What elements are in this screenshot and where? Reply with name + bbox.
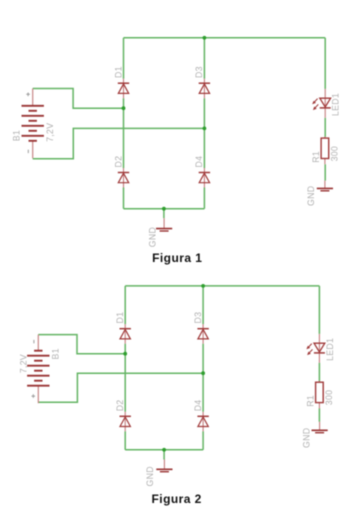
battery B1 fig2 [27,335,49,404]
wire D4 bottom fig1 [203,188,205,209]
svg-text:300: 300 [330,146,340,161]
junction mid-right fig2 [201,371,205,375]
ground bottom fig2 [156,460,172,472]
svg-text:GND: GND [148,227,158,247]
wire battery plus fig2 [38,373,203,402]
wire D4 top fig1 [203,128,205,168]
wire bottom net fig1 [124,208,205,210]
wire LED-R1 fig1 [324,118,326,137]
svg-text:R1: R1 [311,151,321,163]
wire GND stub fig1 [163,209,165,219]
wire D4 bottom fig2 [202,431,204,450]
resistor R1 [321,137,329,165]
minus terminal mark [27,150,29,153]
svg-text:B1: B1 [50,348,60,359]
svg-text:300: 300 [324,390,334,405]
LED LED1 [312,89,331,118]
svg-text:D4: D4 [193,400,203,412]
wire battery plus fig1 [33,89,124,109]
wire R1-GND fig1 [324,164,326,180]
ground right fig1 [317,181,333,191]
svg-text:D1: D1 [115,312,125,324]
wire D1-D2 fig2 [124,344,126,412]
diode D3 [199,79,210,99]
diode D4 [199,168,210,188]
wire top net fig1 [124,37,326,39]
plus terminal mark fig2 [32,394,36,398]
wire battery minus fig1 [33,128,205,158]
wire top net fig2 [125,285,319,287]
svg-text:D3: D3 [194,66,204,78]
svg-text:Figura 1: Figura 1 [152,251,202,265]
diode D4 [197,412,208,432]
diode D2 [120,412,131,432]
junction mid-right fig1 [203,126,207,130]
svg-text:7,2V: 7,2V [45,123,55,142]
wire D1 top fig1 [123,38,125,79]
resistor R1 fig2 [316,381,324,409]
plus terminal mark [26,93,30,97]
diode D1 [118,79,129,99]
svg-text:D2: D2 [113,156,123,168]
junction bottom fig2 [162,448,166,452]
junction bottom fig1 [162,207,166,211]
diode D1 [120,324,131,344]
wire D4 top fig2 [202,373,204,412]
junction top fig1 [203,36,207,40]
diode D2 [118,168,129,188]
svg-text:D4: D4 [194,156,204,168]
junction top fig2 [201,284,205,288]
svg-text:LED1: LED1 [325,338,335,361]
svg-text:GND: GND [306,186,316,206]
ground bottom fig1 [156,218,172,231]
wire GND stub fig2 [163,450,165,460]
junction mid-left fig2 [123,352,127,356]
svg-text:GND: GND [145,466,155,486]
wire D2 bottom fig2 [124,431,126,450]
svg-text:B1: B1 [12,130,22,141]
wire LED-R1 fig2 [318,363,320,382]
wire D3 top fig1 [203,38,205,79]
wire D2 bottom fig1 [123,188,125,209]
svg-text:GND: GND [302,428,312,448]
ground right fig2 [312,422,328,433]
LED LED1 fig2 [306,334,325,363]
junction mid-left fig1 [122,106,126,110]
svg-text:R1: R1 [305,395,315,407]
wire D3 bottom fig2 [202,344,204,374]
wire D1 top fig2 [124,286,126,324]
wire D3 bottom fig1 [203,98,205,128]
svg-text:LED1: LED1 [331,93,341,116]
diode D3 [197,324,208,344]
minus terminal mark fig2 [33,340,35,343]
wire D1-D2 fig1 [123,98,125,168]
wire LED top fig2 [318,286,320,334]
svg-text:D1: D1 [113,66,123,78]
wire battery minus fig2 [38,335,125,354]
battery B1 [22,89,44,159]
svg-text:7,2V: 7,2V [18,354,28,373]
svg-text:Figura 2: Figura 2 [152,492,202,506]
wire bottom net fig2 [125,449,203,451]
svg-text:D3: D3 [193,312,203,324]
svg-text:D2: D2 [115,400,125,412]
wire R1-GND fig2 [318,408,320,422]
wire LED top fig1 [324,38,326,89]
wire D3 top fig2 [202,286,204,324]
